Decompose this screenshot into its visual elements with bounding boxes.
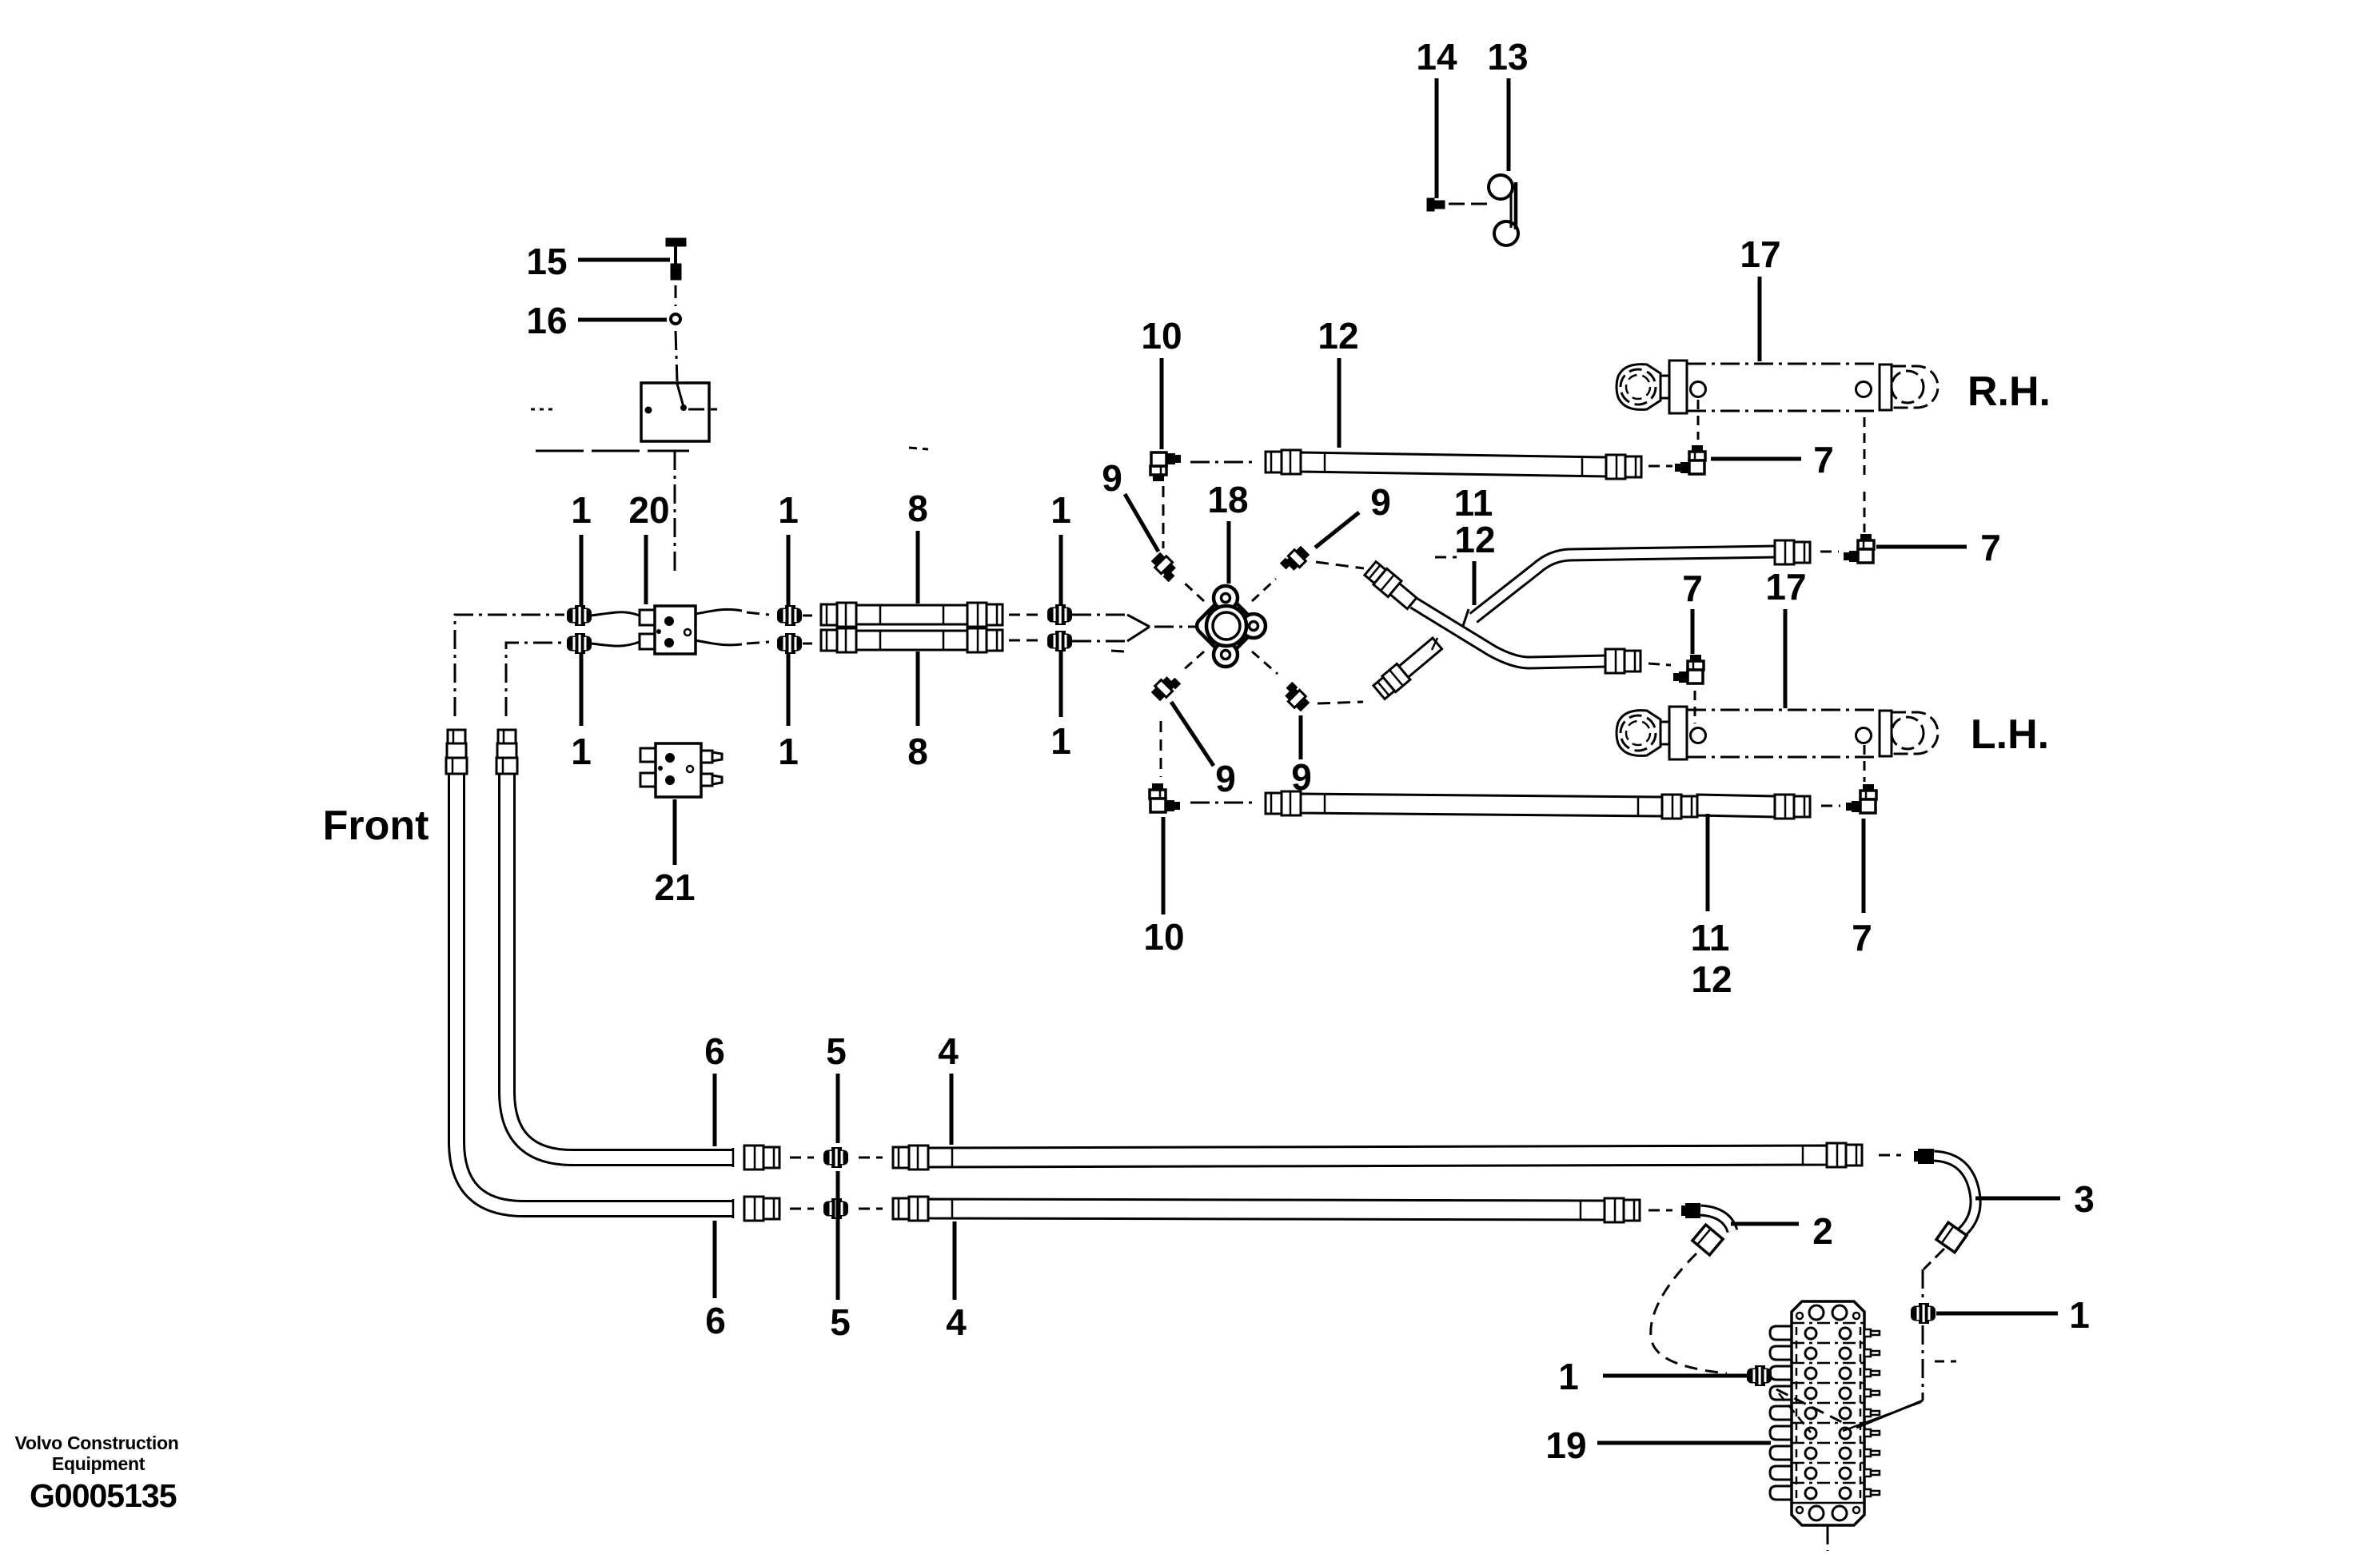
- tube 12 (to LH, crossing): [1413, 603, 1607, 663]
- hose 12 (upper): [1301, 452, 1606, 476]
- wires: cross to elbows: [1182, 580, 1204, 601]
- elbow 7 (RH head side): [1844, 534, 1874, 563]
- hose end fittings upper tube: [1794, 542, 1810, 563]
- tube 12 (to RH, crossing): [1473, 552, 1776, 618]
- elbow 10 bottom: [1150, 783, 1180, 812]
- svg-text:R.H.: R.H.: [1967, 369, 2051, 415]
- wire: [1648, 1209, 1672, 1212]
- wire: small dashes: [909, 448, 928, 449]
- wire: elbow10-elbow9 TL: [1162, 486, 1165, 548]
- svg-text:14: 14: [1416, 36, 1457, 78]
- svg-text:1: 1: [1558, 1356, 1579, 1397]
- svg-text:9: 9: [1102, 457, 1122, 499]
- svg-text:7: 7: [1682, 568, 1703, 609]
- svg-text:6: 6: [704, 1030, 725, 1072]
- elbow 7 (LH head side): [1846, 784, 1876, 813]
- svg-text:G0005135: G0005135: [30, 1477, 177, 1514]
- wire: elbow9 TR to stub: [1316, 562, 1364, 568]
- hose 11 right sleeve: [1697, 795, 1775, 817]
- tube 3: [1918, 1149, 1934, 1164]
- fitting 5: [823, 1147, 848, 1168]
- hose 6 right end fittings y=1512: [732, 1199, 735, 1218]
- svg-text:17: 17: [1740, 233, 1780, 275]
- svg-text:19: 19: [1545, 1425, 1586, 1466]
- wire: [1648, 465, 1672, 468]
- hose 11 (lower): [1301, 794, 1662, 816]
- wire: dash below bolt 15: [675, 285, 677, 306]
- hose 6 right end fittings y=1448: [732, 1148, 735, 1167]
- hose 11 end (upper-left stub): [1364, 560, 1419, 612]
- svg-text:2: 2: [1812, 1210, 1833, 1252]
- svg-text:5: 5: [826, 1030, 847, 1072]
- svg-text:Equipment: Equipment: [52, 1453, 146, 1474]
- hose 6 (inner, to upper line): [507, 772, 733, 1158]
- wire: [1190, 802, 1255, 804]
- svg-text:1: 1: [571, 489, 592, 531]
- fitting 1 (upper-left): [567, 605, 592, 626]
- svg-text:7: 7: [1980, 527, 2001, 568]
- svg-text:15: 15: [526, 241, 567, 282]
- manifold section 5: [1792, 1402, 1864, 1405]
- svg-text:8: 8: [907, 731, 928, 772]
- svg-text:1: 1: [571, 731, 592, 772]
- elbow 7 (RH rod side): [1675, 445, 1705, 474]
- hose top fittings x=634: [498, 730, 516, 743]
- elbow 9 (bottom-right): [1280, 682, 1311, 713]
- wire to valve 20: [592, 612, 640, 616]
- cylinder R.H. (17) (reference): [1617, 365, 1660, 410]
- bracket box (ref): [641, 383, 709, 441]
- hose end fittings lower tube: [1625, 651, 1640, 671]
- fitting 1 (upper right): [1047, 604, 1072, 625]
- manifold 19: [1792, 1301, 1864, 1323]
- svg-text:13: 13: [1487, 36, 1528, 78]
- wire: dash-dot right of box: [688, 408, 717, 411]
- svg-text:Front: Front: [323, 803, 429, 849]
- manifold section 6: [1792, 1422, 1864, 1425]
- svg-text:18: 18: [1207, 479, 1248, 520]
- svg-text:7: 7: [1852, 917, 1872, 958]
- hose top fittings x=571: [448, 730, 465, 743]
- svg-text:12: 12: [1318, 315, 1358, 357]
- wire: converge to cross: [1072, 614, 1127, 616]
- elbow 7 (LH rod side): [1673, 655, 1704, 683]
- valve block 20: [640, 610, 655, 625]
- wire: dashed S-curve to fitting 1: [1651, 1253, 1727, 1373]
- elbow 9 (top-right): [1280, 544, 1311, 576]
- wire: dash-dot down: [1922, 1325, 1924, 1401]
- wire: dash-dot from tube 3 down: [1924, 1249, 1944, 1269]
- wire: dash-dot down to valve 20: [674, 451, 676, 574]
- cylinder L.H. (17) (reference): [1617, 711, 1660, 756]
- wire RH right port down: [1864, 417, 1866, 480]
- svg-text:11: 11: [1691, 917, 1730, 958]
- valve block 21: [640, 748, 656, 762]
- fitting 5: [823, 1198, 848, 1219]
- wire: elbow9 BL down: [1160, 721, 1162, 777]
- fitting 1 (lower-left): [567, 633, 592, 654]
- wire: elbow9 BR to stub: [1318, 702, 1363, 703]
- svg-text:4: 4: [946, 1301, 967, 1343]
- svg-text:10: 10: [1141, 315, 1182, 357]
- elbow 10 top: [1150, 452, 1181, 481]
- wire: dash-dot 14-13: [1449, 203, 1490, 205]
- wires + fittings 5: [790, 1157, 814, 1159]
- svg-text:20: 20: [628, 489, 669, 531]
- tube 2: [1685, 1203, 1700, 1218]
- fitting 1 (upper mid): [777, 605, 802, 626]
- wire: [1648, 663, 1671, 665]
- wire: [1879, 1154, 1901, 1157]
- svg-text:1: 1: [2069, 1294, 2090, 1336]
- svg-text:11: 11: [1454, 482, 1493, 524]
- wire: [1776, 1389, 1847, 1425]
- manifold section 9: [1792, 1482, 1864, 1484]
- svg-text:1: 1: [1050, 720, 1071, 762]
- hose 4 (lower): [928, 1199, 1605, 1220]
- wire: dash-dot corner lower-left: [506, 643, 569, 716]
- svg-text:9: 9: [1370, 481, 1391, 523]
- manifold section 3: [1792, 1362, 1864, 1365]
- fitting 1 (lower mid): [777, 633, 802, 654]
- ball stud 16: [671, 314, 680, 324]
- clamp 13: [1489, 175, 1513, 199]
- manifold section 1: [1792, 1322, 1864, 1325]
- hose 4 (upper): [928, 1146, 1827, 1167]
- bolt 14: [1428, 199, 1433, 210]
- fitting 1 (manifold top): [1911, 1303, 1935, 1324]
- svg-text:10: 10: [1143, 916, 1184, 958]
- svg-text:21: 21: [654, 867, 695, 908]
- wire to RH port: [1697, 400, 1700, 440]
- svg-text:4: 4: [938, 1030, 959, 1072]
- wire: [1821, 805, 1840, 807]
- wire: dash-dot corner upper-left: [455, 615, 564, 716]
- manifold section 8: [1792, 1462, 1864, 1464]
- fitting 1 (bottom left): [1747, 1365, 1772, 1386]
- manifold section 7: [1792, 1442, 1864, 1444]
- svg-text:1: 1: [778, 489, 799, 531]
- bolt 15: [667, 239, 685, 245]
- svg-text:16: 16: [526, 300, 567, 341]
- wire: dash-dot to box: [676, 331, 677, 381]
- manifold section 2: [1792, 1342, 1864, 1345]
- hose 6 (outer, to lower line): [456, 772, 733, 1209]
- svg-text:12: 12: [1454, 519, 1495, 560]
- svg-text:8: 8: [907, 488, 928, 529]
- wire: dots left: [531, 408, 556, 411]
- cross fitting 18: [1194, 593, 1259, 659]
- elbow 9 (bottom-left): [1150, 671, 1181, 703]
- manifold section 4: [1792, 1382, 1864, 1385]
- open tube end cut: [1463, 609, 1469, 626]
- wire: [803, 615, 817, 617]
- wire LH right port down: [1864, 745, 1866, 782]
- wire to LH port: [1694, 691, 1696, 723]
- wire: long dashed line: [536, 450, 689, 452]
- svg-text:1: 1: [778, 731, 799, 772]
- svg-text:17: 17: [1765, 566, 1806, 608]
- hose 8 (lower): [856, 631, 967, 650]
- wires inside manifold: [1779, 1393, 1811, 1432]
- svg-text:7: 7: [1813, 439, 1834, 480]
- svg-text:1: 1: [1050, 489, 1071, 531]
- hose 8 (upper): [856, 605, 967, 624]
- svg-text:5: 5: [830, 1301, 851, 1343]
- svg-text:L.H.: L.H.: [1971, 711, 2049, 758]
- hose 11 end (lower-left stub): [1373, 636, 1444, 700]
- svg-text:12: 12: [1691, 958, 1732, 1000]
- svg-text:9: 9: [1215, 758, 1236, 799]
- wire from valve 20 right: [696, 609, 742, 614]
- svg-text:Volvo Construction: Volvo Construction: [14, 1432, 178, 1453]
- fitting 1 (lower right): [1047, 631, 1072, 651]
- wire: [1820, 551, 1839, 553]
- svg-text:3: 3: [2074, 1178, 2095, 1220]
- wire: [1190, 461, 1255, 464]
- wire: [1009, 614, 1038, 616]
- elbow 9 (top-left): [1150, 551, 1181, 582]
- svg-text:6: 6: [705, 1300, 726, 1341]
